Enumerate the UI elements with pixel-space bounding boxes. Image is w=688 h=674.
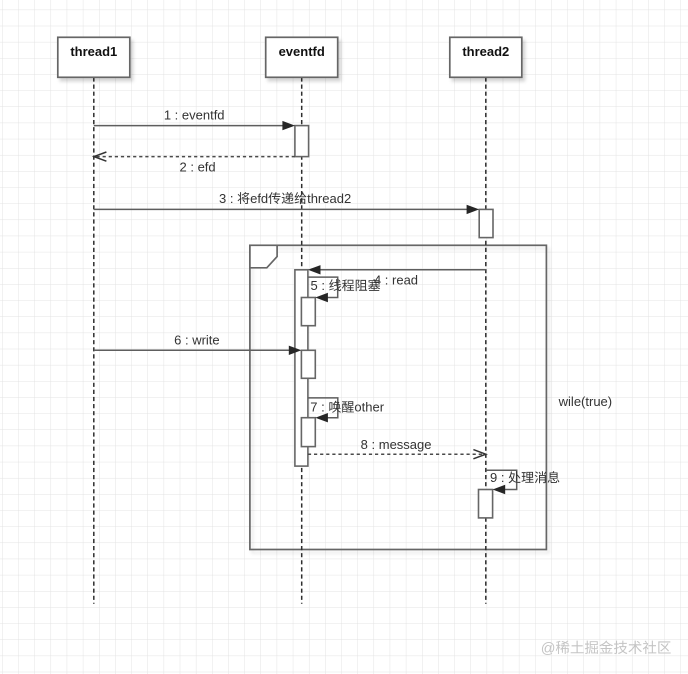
activation A6 nested xyxy=(301,418,315,447)
lifeline thread2 xyxy=(485,77,487,603)
svg-text:wile(true): wile(true) xyxy=(558,394,612,409)
svg-text:other: other xyxy=(354,400,384,415)
message 3 : 将efd传递给thread2 xyxy=(94,205,479,214)
svg-text:3 :: 3 : xyxy=(219,191,237,206)
lifeline thread1 xyxy=(93,77,95,603)
svg-text:eventfd: eventfd xyxy=(279,44,325,59)
svg-text:7 :: 7 : xyxy=(310,400,328,415)
svg-text:2 : efd: 2 : efd xyxy=(180,159,216,174)
message 9 self-call xyxy=(486,470,517,494)
activation A3 eventfd main bar xyxy=(295,270,308,466)
activation A5 nested xyxy=(301,350,315,378)
message 2 : efd (dashed return) xyxy=(94,152,295,174)
label 3 : 将efd传递给thread2 xyxy=(219,191,351,206)
label 9 : 处理消息 xyxy=(490,470,559,485)
svg-text:8 : message: 8 : message xyxy=(361,437,432,452)
actor box eventfd xyxy=(266,37,338,77)
label 7 : 唤醒other xyxy=(310,400,384,415)
activation A2 thread2 xyxy=(479,209,493,237)
message 1 : eventfd xyxy=(94,107,295,130)
label 5 : 线程阻塞 xyxy=(311,278,381,293)
message 7 self-call xyxy=(308,398,338,423)
actor box thread2 xyxy=(450,37,522,77)
actor box thread1 xyxy=(58,37,130,77)
svg-text:1 : eventfd: 1 : eventfd xyxy=(164,107,225,122)
label wile(true) xyxy=(558,394,612,409)
activation A1 eventfd xyxy=(295,126,309,157)
svg-text:6 : write: 6 : write xyxy=(174,333,220,348)
svg-text:9 :: 9 : xyxy=(490,470,508,485)
svg-text:thread2: thread2 xyxy=(307,191,351,206)
message 5 self-call xyxy=(308,277,338,302)
watermark xyxy=(541,640,671,656)
svg-text:@: @ xyxy=(541,641,556,657)
svg-text:4 : read: 4 : read xyxy=(374,273,418,288)
svg-text:thread2: thread2 xyxy=(462,44,509,59)
svg-text:efd: efd xyxy=(250,191,268,206)
svg-text:thread1: thread1 xyxy=(70,44,117,59)
activation A4 nested xyxy=(301,298,315,326)
message 8 : message (dashed) xyxy=(308,437,486,459)
frame title pentagon xyxy=(250,245,277,267)
message 6 : write xyxy=(94,333,302,355)
svg-text:5 :: 5 : xyxy=(311,278,329,293)
lifeline eventfd xyxy=(301,77,303,603)
activation A7 thread2 xyxy=(479,490,493,518)
frame loop (interaction frame) xyxy=(250,245,547,549)
message 4 : read xyxy=(308,265,486,288)
